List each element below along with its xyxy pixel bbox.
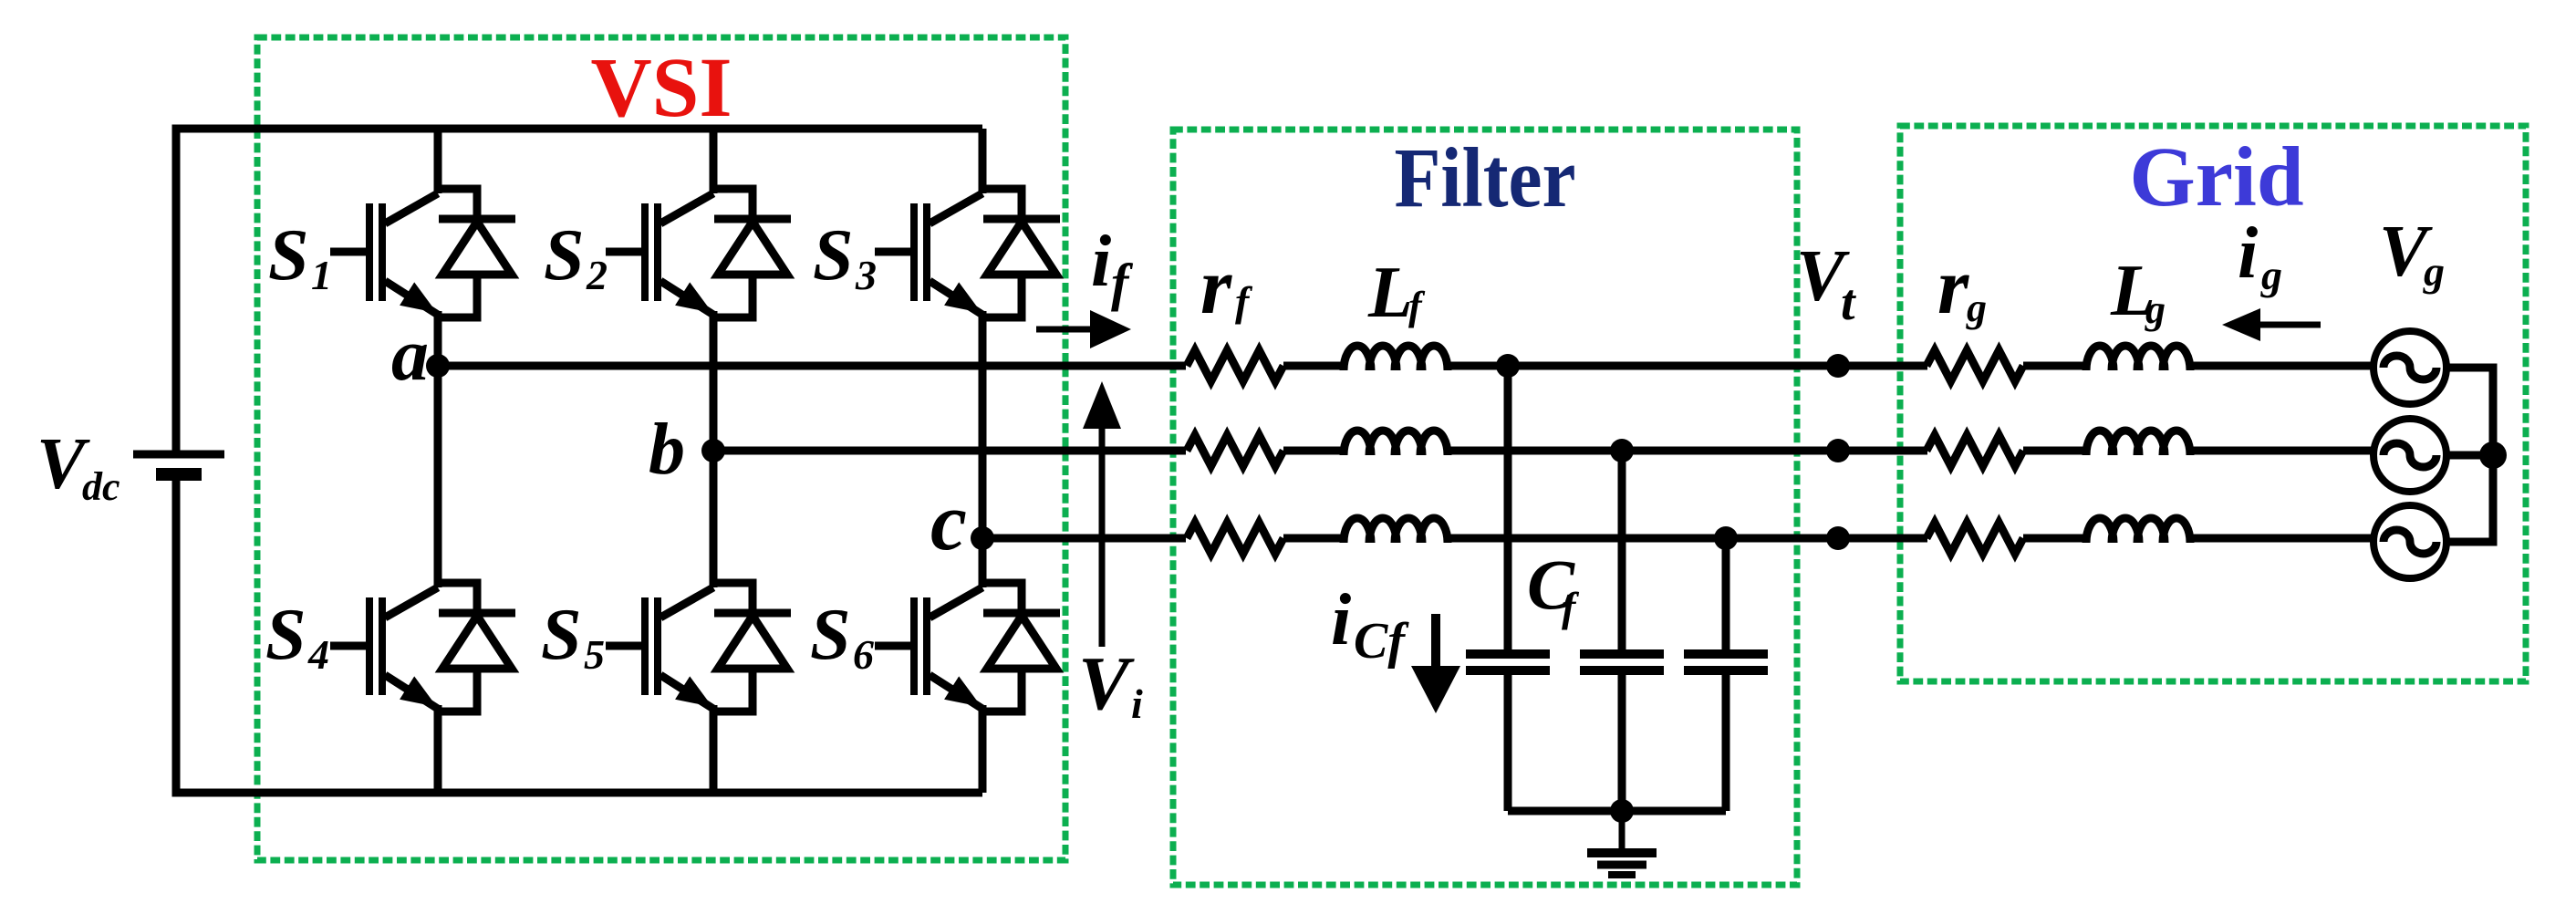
svg-text:S: S bbox=[541, 595, 582, 675]
inductor Lf phase a bbox=[1344, 346, 1448, 370]
wire dc bus negative (bottom) bbox=[176, 481, 982, 793]
svg-text:g: g bbox=[1966, 286, 1987, 330]
svg-text:a: a bbox=[391, 313, 429, 396]
label Vt bbox=[1796, 236, 1856, 331]
junction phase c to Cf bbox=[1714, 526, 1738, 550]
svg-text:g: g bbox=[2260, 252, 2282, 298]
svg-text:i: i bbox=[1331, 580, 1351, 660]
wire grid neutral c bbox=[2445, 455, 2493, 542]
svg-text:g: g bbox=[2145, 287, 2166, 332]
svg-text:S: S bbox=[268, 215, 309, 296]
node c bbox=[971, 526, 994, 550]
svg-text:r: r bbox=[1200, 243, 1232, 331]
svg-text:b: b bbox=[649, 410, 685, 490]
svg-text:V: V bbox=[1078, 641, 1135, 726]
label node c bbox=[930, 477, 967, 567]
transistor S6 (IGBT) bbox=[875, 538, 1022, 793]
freewheeling diode of S3 bbox=[983, 219, 1060, 275]
label Vi bbox=[1078, 641, 1143, 727]
wire Cf a lower bbox=[1504, 675, 1512, 811]
svg-text:f: f bbox=[1408, 284, 1426, 328]
svg-text:1: 1 bbox=[311, 252, 332, 298]
wire phase b rf-Lf bbox=[1283, 447, 1346, 455]
wire phase c rg-Lg bbox=[2023, 535, 2089, 543]
node Vt phase b bbox=[1826, 439, 1850, 462]
svg-text:i: i bbox=[2238, 213, 2258, 294]
svg-text:6: 6 bbox=[853, 631, 874, 678]
freewheeling diode of S4 bbox=[439, 613, 515, 669]
battery Vdc negative plate bbox=[156, 468, 202, 481]
transistor S1 (IGBT) bbox=[330, 129, 477, 366]
Filter dashed box bbox=[1173, 130, 1797, 885]
node Vt phase a bbox=[1826, 354, 1850, 378]
resistor rg phase b bbox=[1927, 435, 2023, 466]
resistor rf phase b bbox=[1187, 435, 1283, 466]
node b bbox=[701, 439, 725, 462]
svg-text:f: f bbox=[1111, 253, 1134, 312]
label Lf bbox=[1367, 253, 1426, 333]
label S1 bbox=[268, 215, 332, 298]
VSI dashed box bbox=[257, 37, 1065, 860]
transistor S5 (IGBT) bbox=[606, 451, 753, 793]
wire phase a (Lf to Vt) bbox=[1445, 362, 1927, 370]
svg-text:S: S bbox=[810, 595, 851, 675]
label node b bbox=[649, 410, 685, 490]
wire phase b (Lf to Vt) bbox=[1445, 447, 1927, 455]
arrow iCf (capacitor current) bbox=[1411, 614, 1460, 713]
resistor rg phase a bbox=[1927, 350, 2023, 381]
ac source Vg phase c bbox=[2373, 505, 2446, 578]
wire phase b (VSI to filter) bbox=[713, 447, 1186, 455]
ground bbox=[1587, 811, 1657, 875]
battery Vdc positive plate bbox=[133, 451, 224, 459]
label Lg bbox=[2110, 251, 2166, 332]
svg-text:t: t bbox=[1841, 275, 1856, 331]
inductor Lg phase c bbox=[2086, 518, 2190, 543]
svg-text:3: 3 bbox=[855, 252, 877, 298]
arrow Vi (inverter voltage) bbox=[1083, 381, 1121, 647]
svg-text:2: 2 bbox=[586, 252, 608, 298]
svg-text:r: r bbox=[1937, 243, 1969, 331]
resistor rf phase a bbox=[1187, 350, 1283, 381]
svg-text:c: c bbox=[930, 477, 967, 567]
inductor Lg phase b bbox=[2086, 431, 2190, 455]
wire phase c (VSI to filter) bbox=[982, 535, 1186, 543]
label iCf bbox=[1331, 580, 1409, 670]
svg-text:f: f bbox=[1235, 278, 1253, 325]
wire phase c rf-Lf bbox=[1283, 535, 1346, 543]
capacitor Cf phase c bbox=[1684, 654, 1768, 670]
wire grid neutral a bbox=[2445, 368, 2493, 455]
wire leg a mid bbox=[434, 366, 442, 587]
svg-text:i: i bbox=[1131, 680, 1143, 727]
wire phase a (VSI to filter) bbox=[438, 362, 1186, 370]
junction capacitor rail to ground bbox=[1610, 799, 1634, 823]
label S3 bbox=[813, 215, 877, 298]
wire phase c (Lf to Vt) bbox=[1445, 535, 1927, 543]
inductor Lf phase b bbox=[1344, 431, 1448, 455]
svg-text:VSI: VSI bbox=[590, 41, 732, 135]
label Cf bbox=[1527, 545, 1580, 630]
svg-text:dc: dc bbox=[82, 464, 120, 509]
label S6 bbox=[810, 595, 874, 678]
svg-text:Filter: Filter bbox=[1395, 131, 1576, 225]
svg-text:i: i bbox=[1091, 222, 1111, 302]
svg-text:g: g bbox=[2423, 248, 2445, 295]
wire Cf b upper bbox=[1618, 451, 1626, 649]
node a bbox=[426, 354, 450, 378]
freewheeling diode of S5 bbox=[714, 613, 791, 669]
arrow if (inverter current) bbox=[1036, 310, 1131, 348]
arrow ig (grid current) bbox=[2222, 308, 2321, 341]
svg-text:f: f bbox=[1562, 584, 1580, 630]
svg-text:Cf: Cf bbox=[1354, 613, 1409, 670]
wire Cf c upper bbox=[1722, 538, 1730, 649]
label if bbox=[1091, 222, 1134, 312]
label S4 bbox=[265, 595, 329, 678]
svg-text:S: S bbox=[813, 215, 854, 296]
ac source Vg phase b bbox=[2373, 419, 2446, 492]
ac source Vg phase a bbox=[2373, 331, 2446, 404]
svg-text:L: L bbox=[1367, 253, 1413, 333]
wire phase a rg-Lg bbox=[2023, 362, 2089, 370]
freewheeling diode of S6 bbox=[983, 613, 1060, 669]
wire phase b rg-Lg bbox=[2023, 447, 2089, 455]
inductor Lg phase a bbox=[2086, 346, 2190, 370]
svg-text:Grid: Grid bbox=[2129, 130, 2303, 224]
label Vg bbox=[2379, 212, 2445, 295]
label S5 bbox=[541, 595, 605, 678]
wire Cf b lower bbox=[1618, 675, 1626, 811]
wire Cf c lower bbox=[1722, 675, 1730, 811]
label ig bbox=[2238, 213, 2282, 298]
svg-text:S: S bbox=[544, 215, 585, 296]
svg-text:4: 4 bbox=[307, 631, 329, 678]
capacitor Cf phase a bbox=[1466, 654, 1550, 670]
label rg bbox=[1937, 243, 1987, 331]
wire Cf a upper bbox=[1504, 366, 1512, 649]
wire phase b Lg to source bbox=[2187, 447, 2376, 455]
transistor S3 (IGBT) bbox=[875, 129, 1022, 587]
label rf bbox=[1200, 243, 1253, 331]
wire phase c Lg to source bbox=[2187, 535, 2376, 543]
wire capacitor common rail bbox=[1508, 807, 1726, 815]
capacitor Cf phase b bbox=[1580, 654, 1664, 670]
wire grid neutral b bbox=[2445, 452, 2493, 460]
svg-text:S: S bbox=[265, 595, 306, 675]
label Vdc bbox=[36, 424, 120, 509]
junction phase a to Cf bbox=[1496, 354, 1520, 378]
wire dc bus positive (top) bbox=[176, 129, 982, 451]
label node a bbox=[391, 313, 429, 396]
Grid dashed box bbox=[1900, 126, 2526, 681]
resistor rf phase c bbox=[1187, 523, 1283, 554]
transistor S4 (IGBT) bbox=[330, 366, 477, 793]
freewheeling diode of S2 bbox=[714, 219, 791, 275]
junction phase b to Cf bbox=[1610, 439, 1634, 462]
inductor Lf phase c bbox=[1344, 518, 1448, 543]
junction grid neutral bbox=[2479, 441, 2507, 469]
wire phase a Lg to source bbox=[2187, 362, 2376, 370]
freewheeling diode of S1 bbox=[439, 219, 515, 275]
node Vt phase c bbox=[1826, 526, 1850, 550]
svg-text:5: 5 bbox=[584, 631, 605, 678]
wire phase a rf-Lf bbox=[1283, 362, 1346, 370]
resistor rg phase c bbox=[1927, 523, 2023, 554]
label S2 bbox=[544, 215, 608, 298]
transistor S2 (IGBT) bbox=[606, 129, 753, 587]
